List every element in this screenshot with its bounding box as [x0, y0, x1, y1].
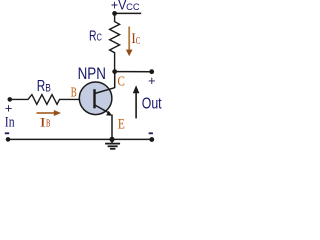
svg-text:I: I	[40, 114, 46, 129]
transistor emitter diagonal with arrow	[95, 105, 110, 113]
svg-text:R: R	[37, 78, 46, 95]
svg-text:B: B	[46, 119, 51, 130]
svg-text:NPN: NPN	[78, 65, 106, 83]
node C junction dot	[112, 69, 117, 74]
node input + terminal dot	[8, 97, 13, 102]
svg-text:CC: CC	[126, 2, 140, 12]
svg-text:C: C	[118, 73, 125, 88]
svg-text:B: B	[45, 83, 51, 95]
resistor Rc	[110, 13, 120, 71]
node output + terminal dot	[149, 69, 154, 74]
svg-text:+: +	[148, 73, 156, 88]
wire bottom rail	[8, 138, 152, 140]
svg-text:R: R	[89, 29, 97, 45]
resistor RB with base wire	[10, 95, 80, 105]
label - (output)	[149, 132, 153, 134]
output arrow (Out)	[135, 92, 137, 118]
transistor Q1 body	[79, 82, 112, 115]
current arrow IC	[128, 27, 130, 51]
svg-text:+V: +V	[111, 0, 126, 12]
svg-text:E: E	[118, 116, 125, 132]
wire collector node to output + terminal	[115, 71, 152, 73]
svg-text:+: +	[5, 101, 13, 116]
svg-text:In: In	[5, 115, 15, 131]
node input - terminal dot	[6, 137, 11, 142]
transistor base bar	[93, 89, 95, 108]
svg-text:B: B	[71, 86, 77, 101]
current arrow IB	[37, 112, 55, 114]
node output - terminal dot	[149, 137, 154, 142]
label - (input)	[5, 132, 9, 134]
wire top rail from VCC node to right	[115, 12, 142, 14]
ground	[111, 139, 113, 143]
transistor collector diagonal	[95, 88, 115, 94]
wire collector vertical	[114, 72, 116, 88]
node VCC junction dot	[112, 11, 117, 16]
svg-text:Out: Out	[142, 96, 162, 113]
node emitter junction dot	[109, 137, 114, 142]
wire emitter vertical	[111, 115, 113, 140]
svg-text:C: C	[136, 36, 141, 47]
svg-text:C: C	[97, 33, 102, 44]
